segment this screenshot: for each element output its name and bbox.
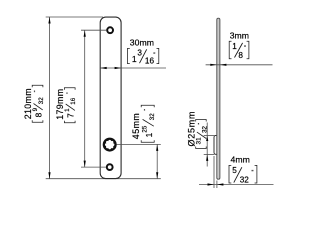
svg-text:1: 1 — [132, 54, 137, 64]
svg-text:8: 8 — [238, 51, 243, 60]
dimension 179mm text — [55, 88, 77, 123]
svg-text:25: 25 — [142, 125, 149, 132]
svg-text:32: 32 — [38, 97, 45, 104]
svg-text:210mm: 210mm — [23, 88, 33, 119]
dimension 30mm line — [100, 67, 166, 69]
dimension 179mm line — [84, 30, 86, 167]
dimension 210mm line — [48, 17, 50, 179]
knob circle (scalloped) — [103, 138, 117, 152]
svg-text:1: 1 — [64, 108, 71, 112]
dimension 3mm line — [206, 64, 273, 66]
svg-text:8: 8 — [33, 112, 43, 117]
svg-text:1: 1 — [232, 42, 237, 51]
svg-text:": " — [153, 53, 155, 59]
extension line bottom hole center — [81, 166, 106, 168]
extension line top hole center — [81, 29, 106, 31]
plate front view outline — [100, 17, 121, 179]
extension line top (plate top edge to 210 dim) — [46, 16, 103, 18]
svg-text:7: 7 — [66, 113, 76, 118]
svg-text:3mm: 3mm — [230, 30, 249, 40]
dimension 4mm line — [199, 183, 274, 185]
dimension 210mm text — [23, 85, 45, 122]
dimension dia25 extension top — [204, 135, 215, 137]
svg-text:179mm: 179mm — [55, 89, 65, 120]
svg-text:3: 3 — [137, 49, 142, 58]
svg-text:": " — [252, 170, 254, 176]
svg-text:16: 16 — [70, 97, 77, 104]
dimension 30mm text — [128, 37, 159, 65]
svg-text:": " — [244, 46, 246, 52]
dimension 45mm text — [131, 105, 156, 142]
dimension 4mm text — [229, 154, 257, 184]
side view cylinder bump — [214, 135, 219, 154]
svg-text:": " — [33, 90, 39, 92]
svg-text:30mm: 30mm — [130, 37, 154, 47]
bottom screw hole — [107, 164, 113, 170]
top screw hole — [107, 27, 113, 33]
svg-text:45mm: 45mm — [131, 113, 141, 139]
svg-text:32: 32 — [201, 125, 208, 132]
dimension dia25 line — [206, 123, 208, 167]
side view plate bar — [217, 18, 220, 179]
dimension dia25 extension bottom — [204, 153, 215, 155]
extension line knob center — [117, 143, 161, 145]
svg-text:32: 32 — [149, 113, 156, 120]
svg-text:5: 5 — [232, 166, 237, 175]
svg-text:9: 9 — [32, 107, 39, 111]
dimension 3mm text — [229, 30, 249, 60]
svg-text:": " — [65, 92, 71, 94]
svg-text:4mm: 4mm — [231, 154, 250, 164]
dimension 4mm extension left — [213, 156, 215, 188]
dimension 45mm line — [156, 144, 158, 178]
svg-text:31: 31 — [196, 137, 203, 144]
extension line bottom (under plate, spans 210 and 45 dims) — [46, 178, 161, 180]
svg-text:32: 32 — [240, 175, 250, 184]
dimension dia25 text — [186, 111, 208, 149]
dimension 4mm extension right — [216, 181, 218, 189]
